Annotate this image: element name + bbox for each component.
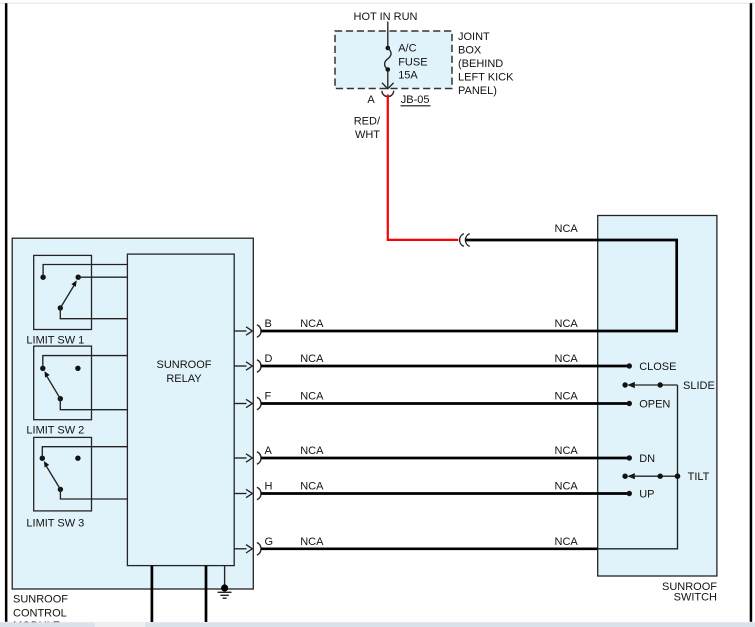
svg-text:NCA: NCA	[555, 353, 579, 365]
wire pin G to switch common (thick outside box)	[261, 547, 598, 550]
ground junction node	[221, 584, 228, 591]
svg-text:NCA: NCA	[555, 391, 579, 403]
limit switch 3 contacts and arm	[40, 456, 81, 493]
svg-text:RELAY: RELAY	[166, 373, 202, 385]
wire: limit sw1 right contact to relay	[78, 276, 127, 278]
ground symbol	[218, 592, 232, 598]
sunroof control module box	[12, 238, 253, 589]
svg-text:NCA: NCA	[555, 445, 579, 457]
svg-text:NCA: NCA	[555, 481, 579, 493]
svg-text:NCA: NCA	[300, 445, 324, 457]
svg-text:LIMIT SW 3: LIMIT SW 3	[26, 517, 84, 529]
wire pin H to UP contact (thick)	[261, 492, 629, 495]
right frame line	[750, 3, 753, 622]
svg-text:SUNROOF: SUNROOF	[13, 594, 68, 606]
svg-text:A/C: A/C	[398, 43, 416, 55]
relay pin F connector arrow	[234, 397, 261, 410]
svg-text:(BEHIND: (BEHIND	[458, 58, 503, 70]
relay pin B connector arrow	[234, 325, 261, 338]
svg-text:DN: DN	[639, 453, 655, 465]
limit switch 2 box	[34, 346, 92, 420]
switch internal: UP contact	[627, 491, 632, 496]
inline connector male arrow	[465, 234, 469, 247]
svg-text:FUSE: FUSE	[398, 56, 427, 68]
sunroof switch box	[598, 216, 717, 577]
svg-text:SWITCH: SWITCH	[674, 591, 717, 603]
svg-text:JOINT: JOINT	[458, 31, 490, 43]
wire RED/WHT from JB-05 to inline connector	[388, 95, 459, 240]
limit switch 2 contacts and arm	[40, 366, 81, 402]
svg-text:LIMIT SW 1: LIMIT SW 1	[26, 334, 84, 346]
svg-text:NCA: NCA	[555, 223, 579, 235]
inline connector female arc	[460, 234, 464, 247]
wire: limit sw1 left contact to relay	[43, 265, 127, 278]
wire: limit sw2 common to relay	[60, 399, 127, 410]
svg-text:TILT: TILT	[688, 471, 710, 483]
top hairline	[0, 3, 755, 4]
switch internal: DN contact	[627, 455, 632, 460]
wire: inline connector to switch, down, and back as pin B circuit (thick)	[261, 240, 677, 331]
wire: limit sw1 common to relay	[60, 308, 127, 319]
relay pin G connector arrow	[234, 543, 261, 556]
switch common bus (vertical)	[598, 385, 678, 549]
svg-text:LEFT KICK: LEFT KICK	[458, 72, 514, 84]
relay pin D connector arrow	[234, 360, 261, 373]
svg-text:RED/: RED/	[354, 115, 381, 127]
wire: limit sw2 left contact to relay	[43, 356, 128, 369]
relay pin A connector arrow	[234, 452, 261, 465]
wire pin F to OPEN contact (thick)	[261, 402, 629, 405]
svg-text:JB-05: JB-05	[401, 94, 430, 106]
wire: limit sw3 common to relay	[60, 489, 127, 499]
left frame line	[5, 3, 8, 622]
svg-text:NCA: NCA	[555, 536, 579, 548]
wire: relay to ground	[224, 566, 226, 588]
svg-text:SLIDE: SLIDE	[683, 380, 715, 392]
svg-text:OPEN: OPEN	[639, 398, 670, 410]
svg-text:BOX: BOX	[458, 45, 482, 57]
svg-text:UP: UP	[639, 488, 654, 500]
relay pin H connector arrow	[234, 487, 261, 500]
male arrow at fuse output	[382, 83, 394, 89]
svg-text:15A: 15A	[398, 70, 418, 82]
svg-text:A: A	[367, 94, 375, 106]
SLIDE switch arm	[622, 382, 677, 388]
svg-text:SUNROOF: SUNROOF	[157, 359, 212, 371]
switch internal: CLOSE contact	[627, 363, 632, 368]
switch internal: OPEN contact	[627, 401, 632, 406]
svg-text:WHT: WHT	[355, 129, 380, 141]
bottom scrollbar band	[0, 622, 755, 627]
limit switch 1 contacts and arm	[40, 275, 81, 311]
svg-text:CLOSE: CLOSE	[639, 361, 676, 373]
wire: relay output to body (thick, left)	[151, 566, 154, 622]
sunroof relay box	[127, 254, 234, 565]
svg-text:B: B	[265, 318, 272, 330]
svg-text:D: D	[265, 353, 273, 365]
wire pin A to DN contact (thick)	[261, 457, 629, 460]
svg-text:G: G	[265, 536, 274, 548]
svg-text:NCA: NCA	[300, 481, 324, 493]
TILT switch arm	[622, 473, 680, 479]
svg-text:HOT IN RUN: HOT IN RUN	[354, 11, 418, 23]
wire pin D to CLOSE contact (thick)	[261, 365, 629, 368]
svg-text:NCA: NCA	[300, 353, 324, 365]
fuse A/C FUSE 15A	[385, 46, 391, 88]
svg-text:LIMIT SW 2: LIMIT SW 2	[26, 424, 84, 436]
svg-text:PANEL): PANEL)	[458, 85, 497, 97]
svg-text:NCA: NCA	[555, 318, 579, 330]
limit switch 3 box	[34, 437, 92, 511]
svg-text:NCA: NCA	[300, 536, 324, 548]
wire: limit sw3 left contact to relay	[42, 447, 127, 459]
wire: hot feed into joint box	[387, 22, 389, 49]
svg-text:NCA: NCA	[300, 318, 324, 330]
limit switch 1 box	[34, 255, 92, 329]
female connector cup JB-05	[382, 91, 394, 97]
svg-text:F: F	[265, 391, 272, 403]
joint box (fuse holder, dashed)	[335, 31, 452, 89]
svg-text:CONTROL: CONTROL	[13, 608, 67, 620]
svg-text:NCA: NCA	[300, 391, 324, 403]
svg-text:A: A	[265, 445, 273, 457]
svg-text:H: H	[265, 481, 273, 493]
wire: relay output to body (thick, right)	[205, 566, 208, 622]
